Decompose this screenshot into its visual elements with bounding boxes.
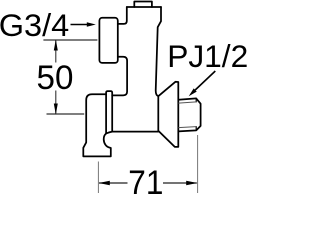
- svg-text:G3/4: G3/4: [0, 7, 69, 43]
- svg-text:PJ1/2: PJ1/2: [167, 38, 248, 74]
- G3/4 leader arrow: [71, 22, 96, 26]
- PJ1/2 leader arrow: [189, 71, 216, 96]
- body right edge: [156, 7, 161, 96]
- extension line 71 left: [97, 162, 99, 194]
- wall flange (tilted disc): [158, 82, 178, 147]
- 50 dimension arrowheads: [54, 40, 58, 115]
- elbow and foot outline: [83, 94, 111, 156]
- svg-text:50: 50: [37, 59, 74, 97]
- cap on top of body: [134, 2, 152, 8]
- extension line 71 right: [197, 135, 199, 193]
- nut chamfer verticals: [195, 98, 197, 130]
- nut band lines: [178, 102, 196, 128]
- 71 dimension line: [99, 182, 197, 184]
- 71 dimension arrowheads: [99, 181, 198, 185]
- extension line top (inlet center): [43, 39, 97, 41]
- column collar at foot top: [106, 91, 112, 133]
- extension line bottom (outlet center): [47, 113, 85, 115]
- body left edge upper: [118, 7, 127, 24]
- pipe bottom line: [112, 131, 158, 133]
- cylinder G3/4 connection: [99, 18, 117, 63]
- body left edge lower with neck line: [112, 57, 127, 96]
- body top edge: [127, 6, 161, 8]
- svg-text:71: 71: [128, 164, 163, 198]
- 50 dimension line: [55, 40, 57, 114]
- PJ nut outline: [178, 98, 200, 131]
- dimension extension lines: [43, 40, 97, 114]
